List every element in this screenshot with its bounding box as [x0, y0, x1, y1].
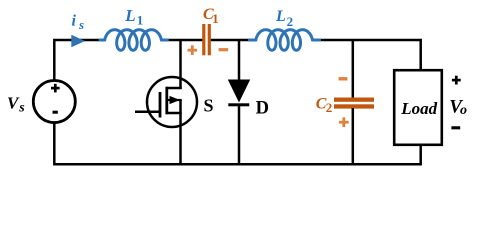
wire: top rail from L2 to corner, down into load top: [320, 40, 421, 70]
svg-text:s: s: [78, 17, 84, 32]
C2 plus sign: [339, 121, 349, 124]
svg-text:L: L: [124, 6, 135, 25]
MOSFET gate bar: [159, 92, 162, 118]
wire: top rail segment between C1 right plate and L2: [211, 39, 250, 42]
MOSFET channel bar: [165, 87, 168, 114]
svg-text:s: s: [18, 101, 25, 116]
svg-text:o: o: [460, 103, 467, 118]
MOSFET circle: [147, 77, 197, 127]
capacitor C1 plates: [202, 24, 205, 55]
C1 minus sign: [219, 48, 229, 51]
MOSFET source wire down to bottom rail: [179, 100, 182, 164]
output minus sign: [451, 126, 460, 129]
C2 minus sign: [339, 77, 348, 80]
diode D: anode wire from top rail: [238, 40, 241, 81]
svg-text:1: 1: [137, 13, 144, 28]
svg-text:1: 1: [212, 11, 219, 26]
svg-text:V: V: [7, 93, 20, 112]
diode cathode wire to bottom rail: [238, 106, 241, 164]
MOSFET top horizontal drain bar: [166, 87, 182, 90]
svg-text:L: L: [275, 8, 286, 25]
wire: top rail from source corner to L1, with corner at source branch: [54, 40, 100, 80]
current arrow i_s: [71, 35, 85, 48]
Vs minus sign: [53, 111, 58, 114]
svg-text:Load: Load: [400, 99, 437, 118]
wire: top rail segment between L1 and C1 left plate: [167, 39, 203, 42]
MOSFET switch S: drain wire from top rail: [179, 40, 182, 89]
wire: bottom rail from source bottom to load bottom: [54, 123, 420, 164]
inductor L2 coil: [250, 30, 320, 51]
C2 branch bottom wire: [352, 108, 355, 164]
svg-text:i: i: [72, 12, 77, 29]
svg-text:2: 2: [287, 14, 294, 29]
svg-text:S: S: [204, 96, 214, 116]
C2 branch top wire: [352, 40, 355, 98]
svg-text:2: 2: [326, 100, 333, 115]
inductor L1 coil: [100, 30, 167, 51]
load box: [394, 70, 442, 145]
diode triangle: [228, 80, 250, 103]
Vs plus sign: [51, 87, 60, 90]
diode cathode bar: [228, 103, 249, 106]
output plus sign: [452, 79, 461, 82]
capacitor C2 plates: [334, 98, 374, 102]
svg-text:D: D: [256, 99, 269, 119]
MOSFET bottom source bar: [166, 112, 182, 115]
C1 plus sign: [188, 49, 198, 52]
MOSFET gate lead stub: [135, 111, 160, 114]
MOSFET middle line with body arrow: [167, 99, 182, 101]
voltage source Vs circle: [33, 81, 75, 123]
